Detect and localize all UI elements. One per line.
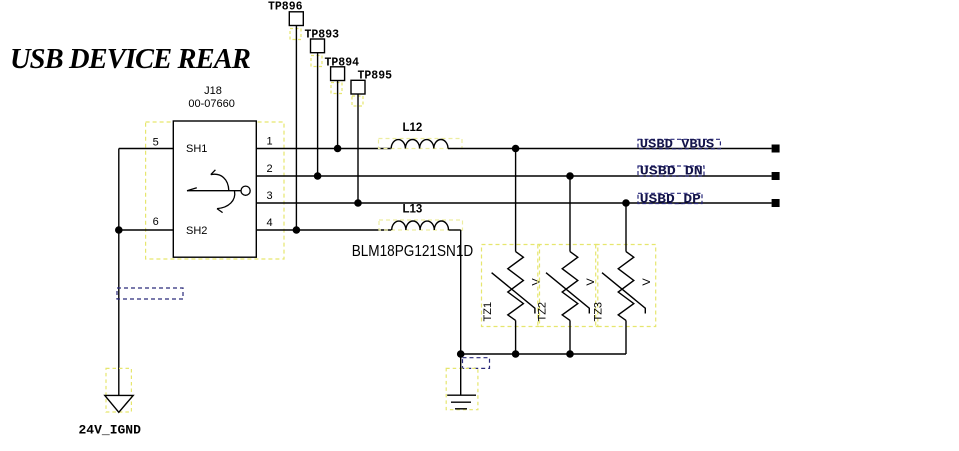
wire ground bus vertical <box>460 230 462 354</box>
svg-text:24V_IGND: 24V_IGND <box>79 423 142 438</box>
inductor L12 selection box <box>379 139 463 149</box>
svg-text:L13: L13 <box>403 204 423 216</box>
svg-text:5: 5 <box>153 137 159 149</box>
inductor L12 <box>391 140 448 149</box>
junction TP896/pin4 <box>293 226 301 234</box>
net USBD_DP label box <box>638 193 702 203</box>
wire TP896 to pin4 net <box>295 26 297 231</box>
junction TZ3 top on DP <box>622 199 630 207</box>
junction pin5/pin6 shield <box>115 226 123 234</box>
wire TP894 to pin1 net <box>337 81 339 149</box>
TVS TZ2 element <box>546 252 589 321</box>
svg-text:USBD_DN: USBD_DN <box>640 163 703 178</box>
svg-text:USB DEVICE REAR: USB DEVICE REAR <box>10 44 250 75</box>
svg-text:TZ2: TZ2 <box>536 302 548 322</box>
TVS TZ3 selection box <box>596 245 656 327</box>
wire TZ2 bottom <box>569 320 571 354</box>
svg-text:TP894: TP894 <box>325 57 360 70</box>
test point TP896 selection box <box>290 29 301 40</box>
junction TP895/pin3 <box>354 199 362 207</box>
terminal USBD_DP <box>772 199 780 207</box>
svg-text:V: V <box>531 278 543 286</box>
svg-text:TZ3: TZ3 <box>592 302 604 322</box>
terminal USBD_VBUS <box>772 145 780 153</box>
junction TP894/pin1 <box>334 145 342 153</box>
wire to chassis ground <box>460 354 462 395</box>
wire pin3 to USBD_DP terminal <box>256 202 771 204</box>
junction TZ1 top on VBUS <box>512 145 520 153</box>
wire TP893 to pin2 net <box>317 53 319 176</box>
wire shield vertical to ground <box>118 149 120 396</box>
svg-text:USBD_DP: USBD_DP <box>640 192 701 207</box>
net USBD_VBUS label box <box>638 139 720 149</box>
net label box shield (empty) <box>117 288 183 299</box>
wire pin4 to L13 <box>256 229 391 231</box>
wire pin2 to USBD_DN terminal <box>256 175 771 177</box>
wire TZ3 top <box>625 203 627 252</box>
svg-text:3: 3 <box>267 190 273 202</box>
inductor L13 <box>392 221 449 230</box>
svg-text:1: 1 <box>267 136 273 148</box>
USB symbol inside J18 <box>187 170 250 213</box>
test point TP895 <box>351 80 365 94</box>
ground 24V_IGND selection box <box>106 368 131 412</box>
wire TZ1 top <box>515 149 517 252</box>
test point TP894 <box>331 67 345 81</box>
ground 24V_IGND symbol <box>105 395 133 412</box>
svg-text:SH2: SH2 <box>186 225 207 237</box>
connector J18 selection box <box>146 122 284 259</box>
inductor L13 selection box <box>379 220 463 230</box>
wire TP895 to pin3 net <box>357 94 359 203</box>
svg-text:2: 2 <box>267 163 273 175</box>
wire TZ1 bottom <box>515 320 517 354</box>
wire TZ2 top <box>569 176 571 252</box>
test point TP896 <box>289 12 303 26</box>
junction ground bus left <box>457 350 465 358</box>
wire pin6 stub <box>119 229 174 231</box>
wire pin1 to L12 <box>256 148 391 150</box>
junction TZ2 bottom <box>566 350 574 358</box>
test point TP894 selection box <box>331 83 342 94</box>
junction TP893/pin2 <box>314 172 322 180</box>
net label box chassis (empty) <box>463 358 490 369</box>
terminal USBD_DN <box>772 172 780 180</box>
svg-text:SH1: SH1 <box>186 143 207 155</box>
svg-text:BLM18PG121SN1D: BLM18PG121SN1D <box>352 243 474 260</box>
wire L13 to ground bus corner <box>449 229 461 231</box>
ground chassis selection box <box>446 368 478 409</box>
ground chassis symbol <box>447 395 476 409</box>
svg-text:V: V <box>641 278 653 286</box>
svg-text:6: 6 <box>153 216 159 228</box>
svg-text:TZ1: TZ1 <box>482 302 494 322</box>
svg-text:USBD_VBUS: USBD_VBUS <box>640 136 715 151</box>
svg-text:J18: J18 <box>204 85 222 97</box>
TVS TZ3 element <box>602 252 645 321</box>
connector J18 body <box>173 121 256 257</box>
TVS TZ1 selection box <box>482 245 540 327</box>
TVS TZ2 selection box <box>538 245 598 327</box>
svg-text:00-07660: 00-07660 <box>188 98 235 110</box>
svg-text:L12: L12 <box>403 122 423 134</box>
wire L12 to USBD_VBUS terminal <box>448 148 772 150</box>
svg-text:4: 4 <box>267 217 273 229</box>
junction TZ1 bottom <box>512 350 520 358</box>
test point TP895 selection box <box>352 96 363 106</box>
test point TP893 <box>311 39 325 53</box>
wire ground bus bottom <box>461 353 626 355</box>
junction TZ2 top on DN <box>566 172 574 180</box>
wire TZ3 bottom <box>625 320 627 354</box>
test point TP893 selection box <box>311 56 322 67</box>
net USBD_DN label box <box>638 166 704 176</box>
TVS TZ1 element <box>492 252 535 321</box>
wire pin5 stub <box>119 148 174 150</box>
